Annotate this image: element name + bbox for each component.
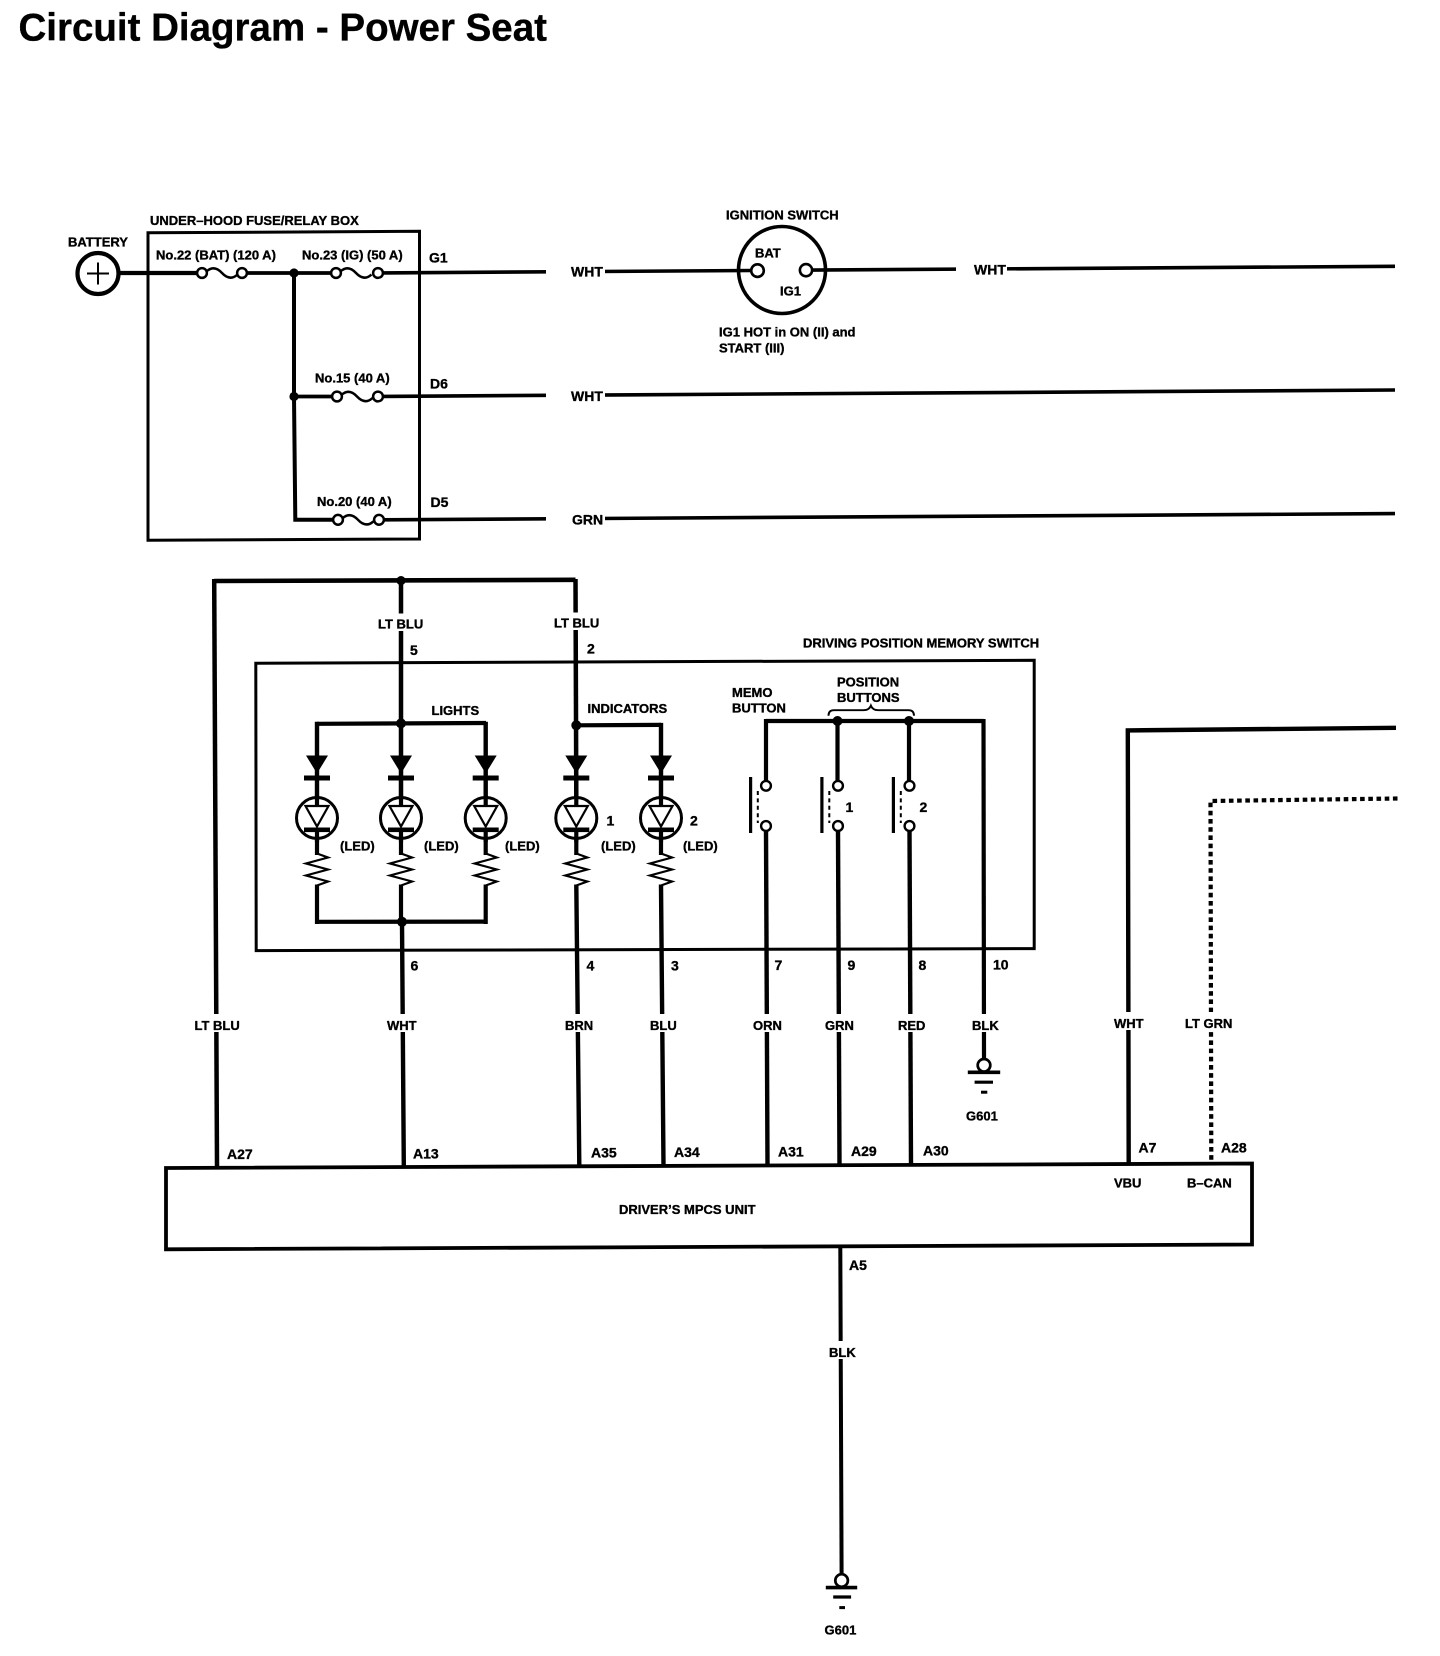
svg-text:GRN: GRN <box>572 512 603 528</box>
label wire BLK at A5 <box>826 1341 858 1360</box>
svg-text:A31: A31 <box>778 1144 804 1160</box>
svg-text:A7: A7 <box>1139 1140 1157 1156</box>
wire trunk junction1 to junction2 <box>292 273 296 397</box>
svg-text:(LED): (LED) <box>340 839 375 854</box>
svg-text:A34: A34 <box>674 1144 700 1160</box>
svg-text:WHT: WHT <box>974 262 1006 278</box>
svg-text:No.20 (40 A): No.20 (40 A) <box>317 494 392 509</box>
svg-text:WHT: WHT <box>571 264 603 280</box>
wire memo button drop <box>764 719 768 781</box>
svg-text:LIGHTS: LIGHTS <box>432 703 480 718</box>
svg-text:IG1: IG1 <box>780 284 801 299</box>
svg-text:(LED): (LED) <box>683 839 718 854</box>
svg-text:2: 2 <box>690 813 698 829</box>
svg-text:4: 4 <box>587 958 595 974</box>
wire junction to fuse No.23 <box>294 271 332 275</box>
diode indicator 1 <box>563 756 589 781</box>
wire fuse No.22 to junction <box>247 271 297 275</box>
wire lights bottom bus <box>317 919 486 923</box>
label wire GRN at A29 <box>822 1014 857 1033</box>
svg-text:No.15 (40 A): No.15 (40 A) <box>315 371 390 386</box>
svg-text:B–CAN: B–CAN <box>1187 1176 1232 1191</box>
svg-text:2: 2 <box>587 641 595 657</box>
svg-text:A35: A35 <box>591 1145 617 1161</box>
svg-text:BLU: BLU <box>650 1018 677 1033</box>
junction node position buttons bus 1 <box>833 716 843 726</box>
wire pin 7 to A31 ORN <box>766 831 768 1166</box>
wire pin 3 to A34 BLU <box>661 885 664 1167</box>
svg-text:BATTERY: BATTERY <box>68 235 128 250</box>
wire left vertical LT BLU to A27 <box>214 579 217 1166</box>
wire pin 4 to A35 BRN <box>576 885 579 1167</box>
wire trunk junction2 down to fuse No.20 corner <box>294 397 334 520</box>
battery <box>78 253 119 294</box>
diode lights 2 <box>388 756 414 781</box>
wire position button 1 drop <box>835 721 839 781</box>
wire indicator 1 LED to resistor <box>574 830 578 855</box>
wire lights branch 1 resistor to bottom bus <box>315 885 319 925</box>
svg-text:2: 2 <box>920 799 928 815</box>
svg-text:ORN: ORN <box>753 1018 782 1033</box>
resistor indicator 1 <box>565 854 587 886</box>
diode lights 1 <box>304 756 330 781</box>
wire pin 9 to A29 GRN <box>838 831 840 1166</box>
white gap on G1 row for WHT label 2 <box>956 259 1007 278</box>
junction node 1 <box>289 268 298 277</box>
label wire BLK at pin 10 <box>969 1014 1001 1033</box>
ground G601 upper <box>968 1059 1000 1092</box>
svg-text:A5: A5 <box>849 1257 867 1273</box>
svg-text:DRIVING POSITION MEMORY SWITCH: DRIVING POSITION MEMORY SWITCH <box>803 636 1039 651</box>
wire LIGHTS bus <box>317 721 486 726</box>
position button 2 switch <box>892 777 915 833</box>
wire memo/position switch bus <box>766 719 984 723</box>
LED lights 2 <box>381 795 422 842</box>
wire position button 2 drop <box>907 721 911 781</box>
ignition switch <box>739 227 826 314</box>
wire battery to fuse box <box>117 271 198 275</box>
label wire WHT at A13 <box>384 1014 421 1033</box>
wire indicator branch 2 drop <box>659 723 663 799</box>
wire indicator 2 LED to resistor <box>659 830 663 855</box>
svg-text:A13: A13 <box>413 1146 439 1162</box>
fuse No.15 (40 A) <box>332 392 383 402</box>
svg-text:RED: RED <box>898 1018 925 1033</box>
svg-text:Circuit Diagram - Power Seat: Circuit Diagram - Power Seat <box>19 7 548 50</box>
label wire WHT at A7 <box>1111 1012 1148 1031</box>
LED indicator 2 <box>641 795 682 842</box>
svg-text:LT BLU: LT BLU <box>554 616 599 631</box>
position button 1 switch <box>820 777 843 833</box>
svg-text:A27: A27 <box>227 1146 253 1162</box>
svg-text:6: 6 <box>411 958 419 974</box>
svg-text:WHT: WHT <box>571 388 603 404</box>
svg-text:8: 8 <box>919 957 927 973</box>
wire LT BLU top bus <box>214 580 576 581</box>
label MEMO BUTTON <box>732 685 786 716</box>
junction node LT BLU top <box>396 576 405 585</box>
svg-text:POSITION: POSITION <box>837 675 899 690</box>
label wire BRN at A35 <box>562 1014 598 1033</box>
driving position memory switch box <box>256 660 1034 950</box>
resistor indicator 2 <box>650 854 672 886</box>
label POSITION BUTTONS <box>837 675 900 706</box>
label wire LT BLU pin 2 <box>551 613 602 631</box>
driver's MPCS unit box <box>166 1164 1252 1250</box>
svg-text:No.23 (IG) (50 A): No.23 (IG) (50 A) <box>302 248 403 263</box>
wire INDICATORS feed vertical (pin 2) <box>573 579 578 799</box>
svg-text:BUTTON: BUTTON <box>732 701 786 716</box>
svg-text:9: 9 <box>848 957 856 973</box>
wire lights branch 3 resistor to bottom bus <box>484 885 488 925</box>
svg-text:BRN: BRN <box>565 1018 593 1033</box>
brace position buttons <box>829 706 915 716</box>
svg-text:G1: G1 <box>429 250 448 266</box>
junction node 2 <box>289 392 298 401</box>
svg-text:VBU: VBU <box>1114 1176 1141 1191</box>
wire junction2 to fuse No.15 <box>294 395 333 399</box>
wire pin 10 to ground G601 BLK <box>981 719 986 1059</box>
wire A5 to ground G601 BLK <box>840 1246 841 1575</box>
svg-text:D5: D5 <box>431 494 449 510</box>
white gap on D6 row for WHT label <box>546 386 605 405</box>
wire G1 row right (ignition switch IG1 terminal to right edge) <box>812 266 1396 270</box>
fuse No.23 (IG) (50 A) <box>331 268 383 278</box>
svg-text:1: 1 <box>607 813 615 829</box>
svg-text:BLK: BLK <box>972 1018 999 1033</box>
wire D5 row (fuse No.20 to right edge) GRN <box>384 514 1396 520</box>
wire LT GRN B-CAN dashed to A28 <box>1211 799 1398 1166</box>
wire D6 row (fuse No.15 to right edge) WHT <box>383 390 1396 396</box>
svg-text:MEMO: MEMO <box>732 685 772 700</box>
wire lights branch 2 LED to resistor <box>399 830 403 855</box>
svg-text:LT BLU: LT BLU <box>195 1018 240 1033</box>
svg-text:(LED): (LED) <box>424 839 459 854</box>
wire lights branch 3 drop <box>484 722 488 799</box>
diode lights 3 <box>473 756 499 781</box>
diode indicator 2 <box>648 756 674 781</box>
svg-text:INDICATORS: INDICATORS <box>588 701 668 716</box>
wire INDICATORS bus <box>576 723 661 728</box>
svg-text:GRN: GRN <box>825 1018 854 1033</box>
wire lights branch 3 LED to resistor <box>484 830 488 855</box>
resistor lights 2 <box>390 854 412 886</box>
svg-text:A30: A30 <box>923 1143 949 1159</box>
label wire LT GRN at A28 <box>1182 1012 1236 1031</box>
svg-text:BLK: BLK <box>829 1345 856 1360</box>
wire LIGHTS feed vertical (pin 5) <box>399 580 404 799</box>
svg-text:5: 5 <box>410 642 418 658</box>
svg-text:DRIVER’S MPCS UNIT: DRIVER’S MPCS UNIT <box>619 1202 756 1217</box>
wire pin 8 to A30 RED <box>910 831 912 1166</box>
label wire LT BLU at A27 <box>192 1014 241 1033</box>
svg-text:WHT: WHT <box>387 1018 417 1033</box>
wire lights branch 1 LED to resistor <box>315 830 319 855</box>
svg-text:BAT: BAT <box>755 246 781 261</box>
junction node position buttons bus 2 <box>904 716 914 726</box>
svg-text:1: 1 <box>846 799 854 815</box>
under-hood fuse/relay box <box>148 231 420 540</box>
svg-text:BUTTONS: BUTTONS <box>837 690 900 705</box>
label wire RED at A30 <box>895 1014 928 1033</box>
LED lights 1 <box>297 795 338 842</box>
label wire ORN at A31 <box>750 1014 785 1033</box>
svg-text:D6: D6 <box>430 376 448 392</box>
svg-text:UNDER–HOOD FUSE/RELAY BOX: UNDER–HOOD FUSE/RELAY BOX <box>150 213 359 228</box>
wire G1 row left (fuse No.23 to ignition switch BAT terminal) <box>383 271 752 273</box>
svg-text:LT BLU: LT BLU <box>378 617 423 632</box>
resistor lights 3 <box>475 854 497 886</box>
label wire LT BLU pin 5 <box>375 614 426 632</box>
svg-text:IGNITION SWITCH: IGNITION SWITCH <box>726 208 839 223</box>
white gap on G1 row for WHT label 1 <box>546 262 605 281</box>
svg-text:(LED): (LED) <box>601 839 636 854</box>
svg-text:A28: A28 <box>1221 1140 1247 1156</box>
wire pin 6 to A13 WHT <box>402 922 404 1166</box>
svg-text:A29: A29 <box>851 1143 877 1159</box>
wire lights branch 2 resistor to bottom bus <box>399 885 403 925</box>
junction node lights bottom bus <box>397 917 407 927</box>
fuse No.20 (40 A) <box>333 515 384 525</box>
svg-text:G601: G601 <box>825 1623 857 1638</box>
wire WHT to A7 with corner <box>1128 728 1396 1166</box>
junction node lights bus <box>396 718 406 728</box>
resistor lights 1 <box>306 854 328 886</box>
svg-text:IG1 HOT in ON (II) and: IG1 HOT in ON (II) and <box>719 325 856 340</box>
svg-text:(LED): (LED) <box>505 839 540 854</box>
note IG1 HOT in ON (II) and START (III) <box>719 325 856 356</box>
svg-text:No.22 (BAT) (120 A): No.22 (BAT) (120 A) <box>156 248 276 263</box>
svg-text:7: 7 <box>775 957 783 973</box>
svg-text:LT GRN: LT GRN <box>1185 1016 1232 1031</box>
LED indicator 1 <box>556 795 597 842</box>
LED lights 3 <box>465 795 506 842</box>
svg-text:3: 3 <box>671 958 679 974</box>
wire lights branch 1 drop <box>315 722 319 799</box>
svg-text:WHT: WHT <box>1114 1016 1144 1031</box>
memo button switch <box>749 777 771 833</box>
svg-text:10: 10 <box>993 957 1009 973</box>
junction node indicators bus <box>571 720 581 730</box>
svg-text:START (III): START (III) <box>719 341 784 356</box>
fuse No.22 (BAT) (120 A) <box>197 268 247 278</box>
white gap on D5 row for GRN label <box>546 510 605 529</box>
ground G601 lower <box>826 1574 857 1607</box>
label wire BLU at A34 <box>647 1014 681 1033</box>
svg-text:G601: G601 <box>966 1109 998 1124</box>
